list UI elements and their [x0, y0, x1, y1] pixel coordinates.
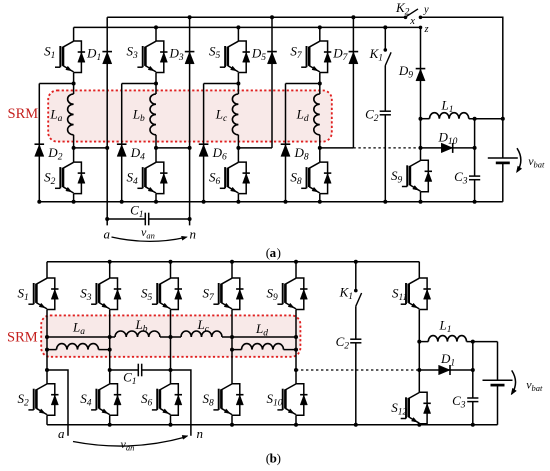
- svg-text:a: a: [270, 245, 277, 260]
- junction: [105, 146, 109, 150]
- inductor L1 (a): [421, 98, 503, 119]
- wire leg 3 (b): [170, 262, 172, 278]
- wire: [170, 415, 172, 425]
- junction: [154, 82, 158, 86]
- transistor S6: [141, 384, 182, 416]
- transistor S9: [267, 278, 308, 310]
- transistor S10: [267, 384, 308, 416]
- junction: [169, 335, 173, 339]
- junction: [294, 260, 298, 264]
- battery vbat: [483, 380, 513, 385]
- diode D1: [439, 351, 456, 375]
- transistor S1: [18, 278, 59, 310]
- wire diode column D7: [352, 17, 354, 148]
- wire leg phase d upper: [319, 27, 321, 41]
- junction: [120, 200, 124, 204]
- wire dashed link (b): [296, 369, 419, 371]
- label van with arrow (b): [73, 435, 188, 452]
- wire C3 column (a): [474, 119, 476, 176]
- junction: [108, 423, 112, 427]
- transistor S5: [141, 278, 182, 310]
- wire C1 branch (a): [107, 218, 145, 220]
- junction: [45, 348, 49, 352]
- wire L1 to battery column: [475, 118, 503, 120]
- junction: [473, 117, 477, 121]
- wire diode column D4: [121, 84, 123, 202]
- junction: [154, 146, 158, 150]
- junction: [188, 146, 192, 150]
- transistor S6: [209, 162, 250, 194]
- wire upper winding line (b): [47, 336, 115, 338]
- junction: [383, 25, 387, 29]
- junction: [318, 25, 322, 29]
- junction: [236, 200, 240, 204]
- junction: [108, 368, 112, 372]
- junction: [318, 200, 322, 204]
- wire top rail (b): [47, 261, 419, 263]
- wire: [231, 415, 233, 425]
- wire: [109, 310, 111, 384]
- wire battery column (a): [502, 163, 504, 202]
- wire C1 branch (b): [110, 369, 139, 371]
- inductor Lc: [215, 94, 239, 135]
- SRM winding box (b): [41, 315, 300, 356]
- wire node A2: [122, 83, 156, 85]
- junction: [294, 348, 298, 352]
- svg-text:): ): [277, 245, 281, 260]
- transistor S8: [203, 384, 244, 416]
- junction: [72, 82, 76, 86]
- wire bottom rail (b): [47, 424, 498, 426]
- battery vbat: [488, 158, 518, 163]
- wire: [237, 194, 239, 202]
- junction: [419, 200, 423, 204]
- wire S11 leg (b): [418, 262, 420, 278]
- wire leg 4 (b): [231, 262, 233, 278]
- capacitor C2: [365, 107, 391, 125]
- wire bottom rail (a): [39, 201, 503, 203]
- label vbat with arrow: [516, 148, 545, 172]
- wire node A3: [204, 83, 239, 85]
- junction: [188, 217, 192, 221]
- transistor S12: [391, 392, 431, 424]
- junction: [169, 423, 173, 427]
- transistor S7: [203, 278, 244, 310]
- switch K1 (b): [339, 262, 362, 307]
- junction: [236, 82, 240, 86]
- capacitor C3: [454, 169, 480, 187]
- wire dashed link (a): [353, 147, 420, 149]
- junction: [417, 368, 421, 372]
- junction: [351, 15, 355, 19]
- transistor S5: [209, 41, 250, 73]
- wire D1 row (b): [419, 369, 473, 371]
- inductor Lb: [132, 94, 156, 135]
- junction: [202, 200, 206, 204]
- junction: [230, 335, 234, 339]
- wire node B4: [320, 147, 354, 149]
- wire: [73, 73, 75, 95]
- wire: [319, 73, 321, 95]
- diode D4: [117, 144, 145, 162]
- label van with arrow (a): [112, 225, 188, 241]
- inductor La: [49, 94, 73, 135]
- wire node A4: [286, 83, 320, 85]
- capacitor C1: [123, 364, 142, 387]
- wire z column: [420, 27, 422, 68]
- junction: [417, 423, 421, 427]
- transistor S4: [80, 384, 121, 416]
- transistor S3: [80, 278, 121, 310]
- junction: [294, 368, 298, 372]
- wire: [237, 135, 239, 162]
- wire leg phase b upper: [155, 27, 157, 41]
- inductor Ld: [296, 94, 320, 135]
- wire: [155, 73, 157, 95]
- junction: [169, 368, 173, 372]
- diode D8: [281, 144, 309, 162]
- wire diode column D1: [106, 17, 108, 225]
- junction: [236, 25, 240, 29]
- junction: [354, 260, 358, 264]
- diode D9: [398, 63, 425, 81]
- junction: [72, 146, 76, 150]
- junction: [383, 200, 387, 204]
- junction: [45, 335, 49, 339]
- svg-text:y: y: [423, 5, 429, 16]
- transistor S9: [391, 160, 432, 192]
- wire: [319, 194, 321, 202]
- wire: [237, 73, 239, 95]
- svg-text:a: a: [104, 227, 111, 242]
- wire C3 column (b): [472, 342, 474, 398]
- diode D2: [35, 144, 63, 162]
- diode D5: [251, 45, 277, 63]
- diode D6: [199, 144, 227, 162]
- wire node B1: [74, 147, 108, 149]
- wire: [170, 310, 172, 384]
- junction: [473, 146, 477, 150]
- junction: [230, 348, 234, 352]
- junction: [169, 260, 173, 264]
- node n branch (b): [171, 370, 204, 441]
- wire leg phase a upper: [73, 27, 75, 41]
- junction: [37, 200, 41, 204]
- svg-text:x: x: [409, 16, 415, 27]
- wire: [319, 135, 321, 162]
- wire node B3: [238, 147, 272, 149]
- wire: [420, 119, 422, 161]
- junction: [108, 348, 112, 352]
- wire diode column D8: [285, 84, 287, 202]
- wire: [73, 135, 75, 162]
- capacitor C1: [130, 203, 149, 226]
- inductor La (b): [47, 320, 110, 350]
- capacitor C3: [452, 393, 478, 411]
- wire: [155, 135, 157, 162]
- junction: [417, 340, 421, 344]
- transistor S7: [290, 41, 331, 73]
- junction: [284, 200, 288, 204]
- junction: [294, 423, 298, 427]
- capacitor C2: [336, 334, 362, 352]
- wire leg 5 (b): [295, 262, 297, 278]
- wire diode column D6: [203, 84, 205, 202]
- junction: [154, 25, 158, 29]
- diode D7: [332, 45, 358, 63]
- junction: [419, 117, 423, 121]
- junction: [354, 423, 358, 427]
- junction: [108, 335, 112, 339]
- wire leg phase c upper: [237, 27, 239, 41]
- switch K1 (a): [369, 27, 392, 65]
- junction: [108, 260, 112, 264]
- wire: [295, 310, 297, 384]
- label vbat with arrow: [511, 370, 543, 394]
- wire C2 column (a): [384, 66, 386, 112]
- wire: [46, 310, 48, 384]
- transistor S8: [290, 162, 331, 194]
- inductor Ld (b): [232, 321, 296, 350]
- junction: [471, 423, 475, 427]
- inductor Lc (b): [181, 317, 222, 337]
- wire C2 column (b): [355, 306, 357, 339]
- junction: [419, 146, 423, 150]
- wire diode column D5: [271, 17, 273, 148]
- switch K2: [395, 0, 429, 35]
- junction: [318, 82, 322, 86]
- junction: [45, 368, 49, 372]
- wire node A1: [39, 83, 73, 85]
- wire: [109, 415, 111, 425]
- svg-text:SRM: SRM: [7, 330, 38, 346]
- wire K2 y to battery: [421, 17, 503, 158]
- junction: [471, 368, 475, 372]
- transistor S3: [127, 41, 168, 73]
- svg-text:n: n: [197, 426, 204, 441]
- svg-text:a: a: [58, 426, 65, 441]
- wire: [420, 192, 422, 202]
- junction: [471, 340, 475, 344]
- diode D10: [438, 130, 458, 153]
- junction: [230, 423, 234, 427]
- svg-text:z: z: [424, 24, 429, 35]
- transistor S1: [44, 41, 85, 73]
- junction: [318, 146, 322, 150]
- wire: [73, 194, 75, 202]
- wire: [418, 310, 420, 393]
- node a branch (b): [47, 370, 68, 441]
- svg-text:n: n: [190, 227, 197, 242]
- junction: [188, 15, 192, 19]
- junction: [270, 15, 274, 19]
- wire D10 row: [421, 147, 475, 149]
- transistor S2: [18, 384, 59, 416]
- transistor S4: [127, 162, 168, 194]
- wire top rail 1 (a): [107, 16, 405, 18]
- inductor L1 (b): [419, 318, 497, 342]
- junction: [105, 217, 109, 221]
- wire diode column D2: [38, 84, 40, 202]
- wire node B2: [156, 147, 190, 149]
- wire diode column D3: [189, 17, 191, 225]
- junction: [154, 200, 158, 204]
- wire leg 2 (b): [109, 262, 111, 278]
- wire: [418, 424, 420, 425]
- transistor S2: [44, 162, 85, 194]
- junction: [501, 117, 505, 121]
- wire: [295, 415, 297, 425]
- wire battery column (b): [497, 342, 499, 381]
- transistor S11: [392, 278, 431, 310]
- diode D1: [86, 45, 112, 63]
- svg-text:): ): [277, 451, 281, 466]
- svg-text:SRM: SRM: [8, 106, 39, 122]
- SRM winding box (a): [48, 90, 332, 141]
- wire top rail 2 (a): [74, 26, 421, 28]
- inductor Lb (b): [115, 317, 160, 337]
- junction: [72, 200, 76, 204]
- wire: [231, 310, 233, 384]
- wire: [155, 194, 157, 202]
- junction: [473, 200, 477, 204]
- junction: [230, 260, 234, 264]
- diode D3: [168, 45, 194, 63]
- junction: [236, 146, 240, 150]
- wire leg 1 (b): [46, 262, 48, 278]
- wire: [46, 415, 48, 425]
- junction: [294, 335, 298, 339]
